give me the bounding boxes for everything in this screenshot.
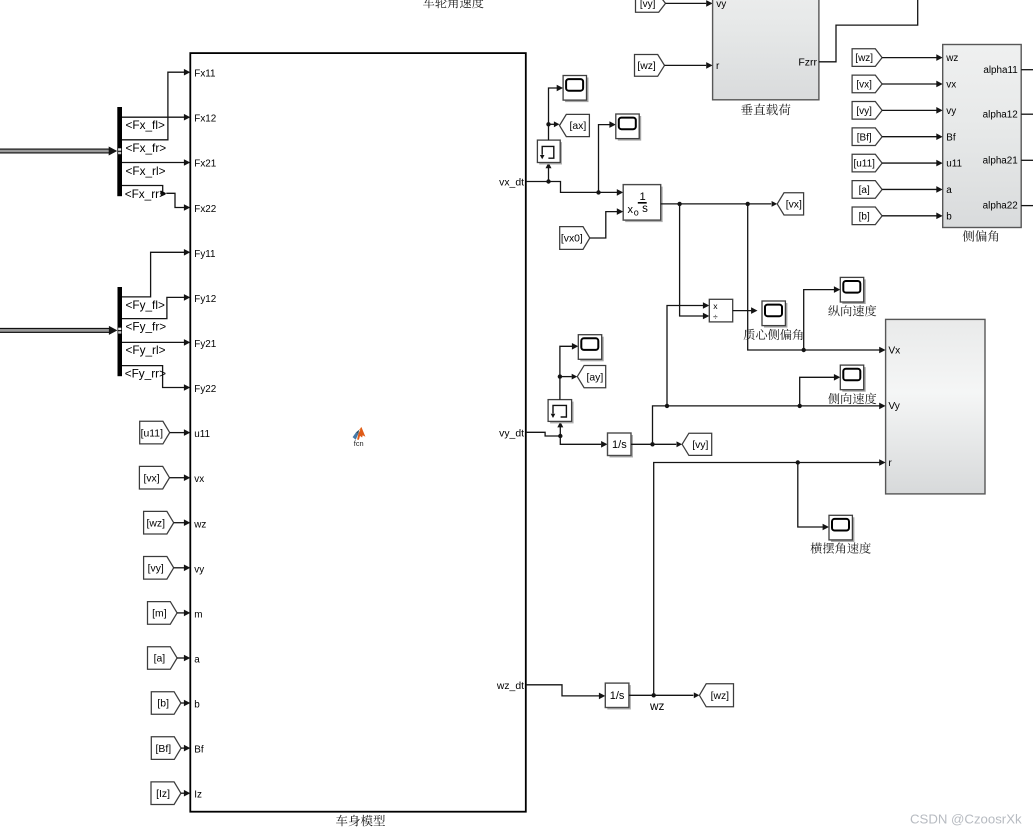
scope S7 横摆角速度 — [831, 517, 854, 542]
svg-text:vy: vy — [716, 0, 726, 10]
scope S6 侧向速度 — [842, 367, 865, 392]
svg-text:Fx12: Fx12 — [194, 114, 216, 125]
wire B1.2 <Fx_fr> to Fx11 — [122, 72, 184, 140]
wire vy_dt from U1 — [526, 432, 561, 436]
from tag [vy] (to 垂直载荷) — [636, 0, 666, 12]
wire [m] to U1 — [177, 612, 184, 614]
svg-text:vy: vy — [946, 106, 956, 117]
svg-text:[vx]: [vx] — [786, 200, 802, 211]
label 纵向速度 — [828, 305, 876, 316]
U1 label 车身模型 — [336, 815, 385, 827]
scope S3 质心侧偏角 — [764, 303, 787, 328]
rotated block B (angle wrap) — [550, 402, 574, 424]
wire [vy] to 侧偏角 — [882, 109, 937, 111]
scope S2 (vx_dt) — [618, 116, 641, 141]
from tag [u11] (to U1) — [140, 421, 170, 444]
wire wz to U2 r — [654, 463, 880, 696]
svg-text:[wz]: [wz] — [855, 53, 873, 64]
wire B1.3 <Fx_rl> to Fx21 — [122, 162, 184, 164]
wire alpha12 output stub — [1021, 113, 1033, 115]
svg-text:wz: wz — [193, 519, 206, 530]
label 侧向速度 — [828, 393, 876, 404]
wire B1.4 <Fx_rr> to Fx22 (segment 2) — [166, 193, 184, 207]
svg-text:wz: wz — [649, 699, 665, 713]
from tag [b] (to U1) — [151, 692, 181, 715]
svg-text:[Iz]: [Iz] — [156, 789, 170, 800]
wire I3 output to [wz] — [629, 694, 694, 696]
wire alpha21 output stub — [1021, 159, 1033, 161]
svg-text:[ay]: [ay] — [587, 372, 604, 383]
block 垂直载荷 subsystem — [713, 0, 819, 100]
integrator I1 (1/s with x0) for vx — [625, 187, 663, 223]
wire [Bf] to U1 — [181, 747, 184, 749]
goto tag [wz] — [699, 684, 733, 707]
svg-text:CSDN @CzoosrXk: CSDN @CzoosrXk — [910, 811, 1022, 826]
from tag [b] (to 侧偏角) — [852, 207, 882, 225]
block U2 (Vx Vy r subsystem) — [886, 319, 985, 494]
svg-text:Fx21: Fx21 — [194, 159, 216, 170]
svg-text:1/s: 1/s — [612, 439, 627, 451]
goto tag [vy] — [682, 433, 712, 455]
wire B1.4 <Fx_rr> to Fx22 (segment 1) — [122, 186, 163, 194]
label 车轮角速度 (clipped at top) — [423, 0, 484, 8]
from tag [Bf] (to U1) — [151, 737, 181, 760]
svg-text:s: s — [642, 203, 648, 215]
from tag [vy] (to U1) — [144, 557, 174, 580]
svg-text:[vx0]: [vx0] — [561, 234, 583, 245]
svg-text:Fx22: Fx22 — [194, 204, 216, 215]
integrator I3 (1/s) for wz — [607, 685, 631, 709]
from tag [m] (to U1) — [148, 602, 178, 625]
svg-text:<Fy_rr>: <Fy_rr> — [125, 367, 166, 381]
svg-text:<Fx_rl>: <Fx_rl> — [126, 164, 166, 178]
goto tag [ay] — [577, 365, 605, 387]
wire [u11] to 侧偏角 — [882, 162, 937, 164]
svg-text:÷: ÷ — [713, 312, 718, 322]
wire branch to scope 侧向速度 — [800, 377, 835, 406]
bus wire into B2 — [0, 328, 110, 333]
svg-text:1/s: 1/s — [610, 690, 625, 702]
wire B2.2 <Fy_fr> to Fy12 — [122, 297, 184, 318]
goto tag [vx] — [777, 193, 803, 215]
from tag [a] (to U1) — [148, 647, 178, 670]
wire [vx] to U1 — [170, 477, 185, 479]
wire B2.4 <Fy_rr> to Fy22 — [122, 366, 184, 388]
svg-text:a: a — [946, 185, 952, 196]
svg-text:[u11]: [u11] — [141, 428, 163, 439]
wire [Bf] to 侧偏角 — [882, 136, 937, 138]
svg-text:[m]: [m] — [152, 609, 167, 620]
svg-text:<Fx_fl>: <Fx_fl> — [126, 118, 165, 132]
svg-text:r: r — [888, 458, 892, 469]
svg-text:vy_dt: vy_dt — [499, 428, 524, 439]
svg-text:fcn: fcn — [354, 439, 364, 448]
from tag [Iz] (to U1) — [151, 782, 181, 805]
svg-text:b: b — [194, 700, 200, 711]
wire B2.1 <Fy_fl> to Fy11 — [122, 252, 184, 297]
svg-text:[ax]: [ax] — [569, 121, 586, 132]
svg-text:a: a — [194, 655, 200, 666]
svg-text:u11: u11 — [946, 159, 962, 170]
svg-text:x: x — [713, 301, 718, 311]
svg-text:Fzrr: Fzrr — [798, 57, 817, 69]
wire B2.3 <Fy_rl> to Fy21 — [122, 341, 184, 343]
from tag [vx0] — [560, 227, 590, 250]
svg-text:[Bf]: [Bf] — [156, 744, 172, 755]
svg-text:<Fx_rr>: <Fx_rr> — [125, 187, 166, 201]
svg-text:<Fy_fl>: <Fy_fl> — [126, 298, 165, 312]
svg-text:Iz: Iz — [194, 790, 202, 801]
svg-text:[vy]: [vy] — [856, 106, 872, 117]
svg-text:Fy21: Fy21 — [194, 339, 216, 350]
wire branch to scope 纵向速度 — [804, 290, 835, 350]
wire [vy] to U1 — [174, 567, 185, 569]
rotated block A (angle wrap) — [539, 142, 562, 164]
from tag [Bf] (to 侧偏角) — [852, 128, 882, 146]
svg-text:[b]: [b] — [859, 211, 870, 222]
wire vy_dt up to wrap block B — [559, 426, 561, 436]
svg-text:<Fy_fr>: <Fy_fr> — [126, 320, 167, 334]
wire vx to divide (÷ input) — [680, 204, 704, 316]
wire wz_dt from U1 — [526, 685, 600, 696]
svg-text:u11: u11 — [194, 429, 210, 440]
svg-text:vx: vx — [946, 80, 956, 91]
svg-text:vx: vx — [194, 474, 204, 485]
svg-text:Vx: Vx — [888, 345, 900, 356]
bus selector B2 (Fy) — [118, 287, 123, 376]
wire I1 output to [vx] — [661, 203, 772, 205]
svg-text:Fy11: Fy11 — [194, 249, 216, 260]
svg-text:[vy]: [vy] — [148, 564, 164, 575]
wire [vy] to vy port — [666, 2, 707, 4]
wire [b] to 侧偏角 — [882, 215, 937, 217]
wire D1 to scope 质心侧偏角 — [733, 310, 752, 312]
svg-text:x: x — [627, 204, 633, 216]
from tag [vx] (to U1) — [139, 466, 169, 489]
svg-text:[u11]: [u11] — [853, 159, 875, 170]
divide block D1 — [709, 299, 732, 322]
label 质心侧偏角 — [744, 329, 803, 340]
wire [wz] to U1 — [174, 522, 185, 524]
integrator I2 (1/s) for vy — [610, 435, 634, 458]
svg-text:alpha12: alpha12 — [983, 109, 1018, 120]
svg-text:m: m — [194, 609, 202, 620]
goto tag [ax] — [560, 114, 590, 136]
svg-text:b: b — [946, 211, 952, 222]
label 横摆角速度 — [811, 542, 871, 553]
svg-text:wz_dt: wz_dt — [496, 681, 524, 692]
svg-text:[Bf]: [Bf] — [857, 132, 872, 143]
wire branch to scope 横摆角速度 — [798, 463, 823, 528]
wire vx_dt up to wrap block A — [548, 167, 550, 182]
svg-text:[a]: [a] — [154, 654, 166, 665]
svg-text:alpha21: alpha21 — [983, 155, 1019, 166]
from tag [wz] (to U1) — [144, 511, 174, 534]
scope S4 纵向速度 — [842, 279, 865, 304]
wire B1.1 <Fx_fl> to Fx12 — [122, 116, 184, 118]
block 侧偏角 subsystem — [943, 45, 1022, 228]
scope S1 (ax) — [565, 78, 588, 103]
svg-text:Fy22: Fy22 — [194, 384, 216, 395]
from tag [vx] (to 侧偏角) — [852, 75, 882, 93]
svg-text:Fy12: Fy12 — [194, 294, 216, 305]
wire [wz] to 侧偏角 — [882, 57, 937, 59]
svg-text:vy: vy — [194, 564, 204, 575]
wire vy to U2 Vy — [653, 406, 880, 444]
svg-text:[wz]: [wz] — [147, 518, 166, 529]
wire [a] to U1 — [177, 657, 184, 659]
wire branch to scope S2 — [596, 190, 600, 194]
wire I2 output to [vy] — [631, 443, 676, 445]
from tag [a] (to 侧偏角) — [852, 181, 882, 199]
svg-text:Bf: Bf — [946, 132, 956, 143]
wire Fzrr output (to top) — [819, 0, 918, 62]
svg-text:[wz]: [wz] — [711, 691, 730, 702]
svg-text:vx_dt: vx_dt — [499, 178, 524, 189]
from tag [wz] (to 垂直载荷) — [635, 55, 665, 77]
wire vx_dt from U1 — [526, 181, 549, 183]
svg-text:Vy: Vy — [888, 401, 900, 412]
wire [b] to U1 — [181, 702, 184, 704]
svg-text:[vy]: [vy] — [692, 440, 708, 451]
wire [vx] to 侧偏角 — [882, 83, 937, 85]
svg-text:o: o — [634, 208, 639, 218]
wire alpha11 output stub — [1021, 69, 1033, 71]
label 侧偏角 — [963, 230, 999, 242]
wire block B to [ay]/scope — [560, 346, 573, 399]
svg-text:[a]: [a] — [859, 185, 870, 196]
svg-text:<Fx_fr>: <Fx_fr> — [126, 141, 167, 155]
svg-text:[vx]: [vx] — [856, 80, 872, 91]
wire [u11] to U1 — [170, 432, 185, 434]
svg-text:alpha22: alpha22 — [983, 201, 1018, 212]
wire alpha22 output stub — [1021, 205, 1033, 207]
bus wire into B1 — [0, 149, 110, 154]
wire [Iz] to U1 — [181, 792, 184, 794]
scope S5 (ay) — [580, 337, 603, 362]
svg-text:[vy]: [vy] — [640, 0, 656, 10]
label 垂直载荷 — [741, 104, 790, 116]
svg-text:[b]: [b] — [157, 699, 169, 710]
svg-text:[wz]: [wz] — [637, 61, 656, 72]
svg-text:1: 1 — [639, 191, 645, 203]
from tag [wz] (to 侧偏角) — [852, 49, 882, 67]
wire [wz] to r port — [665, 64, 707, 66]
svg-text:<Fy_rl>: <Fy_rl> — [126, 343, 166, 357]
svg-text:[vx]: [vx] — [143, 473, 159, 484]
bus selector B1 (Fx) — [117, 107, 122, 196]
block U1 MATLAB Function 车身模型 — [190, 53, 526, 812]
wire [a] to 侧偏角 — [882, 188, 937, 190]
svg-text:wz: wz — [945, 53, 958, 64]
svg-text:Bf: Bf — [194, 745, 204, 756]
wire [vx0] to I1 x0 input — [590, 212, 617, 238]
from tag [u11] (to 侧偏角) — [852, 154, 882, 172]
U1 fcn icon (MATLAB logo) — [353, 427, 366, 440]
wire vy to divide (x input) — [667, 306, 703, 406]
from tag [vy] (to 侧偏角) — [852, 102, 882, 120]
wire block A to [ax]/scope — [549, 88, 558, 140]
wire vx to U2 Vx — [748, 204, 880, 350]
svg-text:alpha11: alpha11 — [983, 65, 1018, 76]
svg-text:Fx11: Fx11 — [194, 69, 216, 80]
